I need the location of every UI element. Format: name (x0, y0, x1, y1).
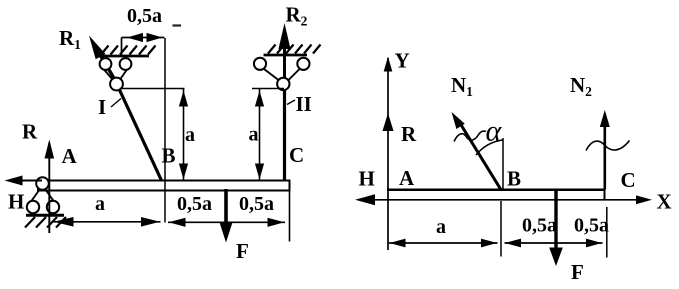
svg-text:0,5a: 0,5a (574, 215, 609, 237)
svg-text:B: B (507, 167, 521, 191)
svg-text:F: F (236, 239, 249, 263)
support at top of bar I (pin, rollers, ceiling with hatching) (98, 46, 156, 91)
dimension 0,5a + 0,5a (bottom, F crosses in middle) (168, 193, 285, 227)
support H (pin, rollers, ground with hatching) (25, 177, 66, 227)
dimension a (right diagram) (389, 216, 498, 247)
label R2 (286, 3, 308, 29)
svg-text:0,5a: 0,5a (127, 5, 162, 27)
force H (horizontal arrow pointing left) (5, 176, 43, 186)
svg-text:H: H (8, 190, 24, 214)
force R1 (reaction arrow up-left) (89, 36, 115, 81)
label C (right diagram) (621, 168, 636, 192)
label alpha (486, 115, 503, 148)
force F (right diagram, downward) (549, 190, 563, 266)
angle arc alpha (476, 140, 503, 155)
svg-text:C: C (621, 168, 636, 192)
svg-text:X: X (657, 190, 672, 214)
label Y (395, 49, 410, 73)
svg-text:C: C (289, 143, 304, 167)
label I with leader line (98, 95, 121, 119)
label F (left diagram) (236, 239, 249, 263)
beam AC (right diagram) (387, 190, 605, 200)
force N2 (vertical, with squiggle) (586, 110, 630, 190)
svg-text:0,5a: 0,5a (239, 193, 274, 215)
svg-text:0,5a: 0,5a (522, 215, 557, 237)
label A (left diagram) (62, 144, 78, 168)
dimension a vertical (right) (249, 89, 265, 180)
force R (right diagram, arrowhead on Y axis) (383, 113, 394, 131)
svg-text:0,5a: 0,5a (177, 193, 212, 215)
svg-text:A: A (62, 144, 78, 168)
svg-text:F: F (571, 260, 584, 284)
bar II (vertical rod) (283, 88, 286, 181)
label H (right diagram) (359, 167, 375, 191)
vertical reference line at B (for angle alpha) (502, 138, 504, 190)
label X (657, 190, 672, 214)
reference line at top of dimension a (right) (252, 88, 284, 90)
beam HC (horizontal bar A-B-C) (38, 181, 290, 191)
svg-text:a: a (249, 124, 259, 146)
X axis (373, 195, 652, 204)
svg-text:R: R (22, 120, 38, 144)
dimension 0,5a (top) (122, 5, 165, 56)
label N1 (451, 73, 473, 99)
label B (left diagram) (162, 144, 176, 168)
svg-text:α: α (486, 115, 503, 148)
label R1 (59, 26, 81, 52)
extension line at B (right diagram) (500, 201, 502, 257)
label N2 (570, 73, 592, 99)
extension line at C (right diagram) (606, 207, 608, 258)
bar I (diagonal rod) (117, 85, 162, 181)
label R (left diagram) (22, 120, 38, 144)
extension line at C (below beam) (289, 191, 291, 242)
force R2 (reaction arrow up) (279, 23, 291, 78)
dimension 0,5a + 0,5a (right diagram) (505, 215, 610, 248)
label A (right diagram) (399, 166, 415, 190)
dimension a (bottom left segment) (53, 193, 161, 227)
label H (left diagram) (8, 190, 24, 214)
svg-text:I: I (98, 95, 106, 119)
force R (vertical reaction, with extension line down) (45, 140, 55, 234)
reference line at top of dimension a (left) (120, 88, 185, 90)
svg-text:B: B (162, 144, 176, 168)
svg-text:H: H (359, 167, 375, 191)
support at top of bar II (pin, rollers, ceiling with hatching) (254, 45, 321, 91)
label II with leader line (287, 92, 312, 116)
stray scan mark (173, 24, 182, 26)
force N1 (inclined, with squiggle) (452, 112, 502, 190)
force H arrow (left end of X axis) (355, 194, 375, 205)
svg-text:a: a (436, 216, 446, 238)
svg-text:a: a (185, 124, 195, 146)
dimension a vertical (left) (179, 89, 195, 180)
label C (left diagram) (289, 143, 304, 167)
svg-text:A: A (399, 166, 415, 190)
Y axis (384, 57, 393, 251)
label F (right diagram) (571, 260, 584, 284)
svg-text:Y: Y (395, 49, 410, 73)
label R (right diagram) (401, 122, 417, 146)
extension line through B (from top dim to bottom dim) (164, 38, 166, 223)
label B (right diagram) (507, 167, 521, 191)
force F (left diagram, downward) (220, 189, 233, 243)
svg-text:II: II (296, 92, 312, 116)
svg-text:R: R (401, 122, 417, 146)
svg-text:a: a (95, 193, 105, 215)
